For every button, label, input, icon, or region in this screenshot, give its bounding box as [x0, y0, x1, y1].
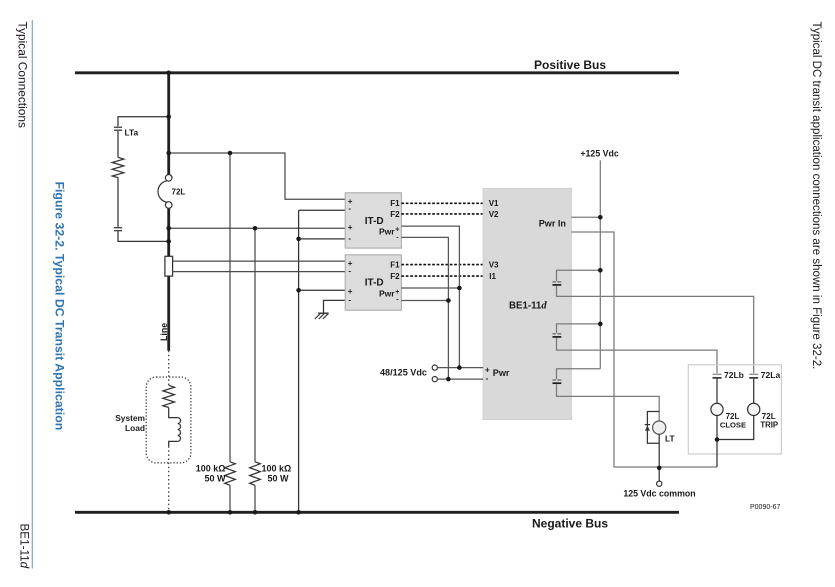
svg-text:LTa: LTa [125, 128, 139, 138]
svg-text:72L: 72L [172, 187, 186, 196]
relay coil LT with diode [645, 412, 675, 444]
svg-text:125 Vdc common: 125 Vdc common [623, 489, 695, 499]
svg-text:TRIP: TRIP [760, 421, 778, 430]
wire bus tap to IT-D1 F+ [169, 153, 346, 199]
svg-text:+: + [348, 223, 353, 232]
svg-text:CLOSE: CLOSE [720, 420, 746, 429]
transducer U2 IT-D [345, 255, 401, 310]
coil 72L TRIP [748, 403, 778, 429]
junction supply+ at terminal [457, 365, 462, 370]
svg-text:72L: 72L [762, 412, 776, 421]
svg-text:50 W: 50 W [204, 473, 226, 483]
wire main feeder vertical [167, 73, 170, 351]
junction supply- branch [446, 298, 451, 303]
svg-text:Negative Bus: Negative Bus [532, 516, 608, 530]
inductor system load L [169, 408, 181, 447]
svg-text:100 kΩ: 100 kΩ [196, 464, 226, 474]
svg-text:Figure 32-2. Typical DC Transi: Figure 32-2. Typical DC Transit Applicat… [52, 182, 66, 431]
junction supply- at terminal [446, 377, 451, 382]
svg-text:100 kΩ: 100 kΩ [262, 464, 292, 474]
wire shunt sense - [173, 271, 346, 273]
contact OUT3 [553, 369, 660, 421]
junction IT-D1 Pwr- node [296, 237, 301, 242]
junction feeder at positive bus [166, 71, 171, 76]
svg-text:-: - [348, 296, 351, 305]
node Positive Bus [75, 58, 679, 73]
wire IT-D1 Pwr- [299, 238, 346, 240]
svg-text:48/125 Vdc: 48/125 Vdc [380, 368, 427, 378]
wire +125 Vdc vertical [599, 160, 601, 368]
svg-text:P0090-67: P0090-67 [750, 504, 780, 511]
wire IT-D2 Pwr+ to supply [401, 287, 459, 289]
junction R2 tap [253, 226, 258, 231]
svg-text:50 W: 50 W [268, 473, 290, 483]
junction sense tap [166, 151, 171, 156]
contact 72La [749, 370, 780, 380]
svg-text:LT: LT [665, 433, 675, 443]
svg-text:-: - [348, 234, 351, 243]
junction +125 at OUT2 [598, 322, 603, 327]
wire resistor R1 branch [229, 153, 231, 462]
svg-text:I1: I1 [489, 272, 496, 281]
svg-text:F1: F1 [390, 199, 400, 208]
svg-text:Pwr: Pwr [493, 368, 510, 378]
svg-text:V2: V2 [489, 210, 499, 219]
svg-text:Pwr: Pwr [379, 227, 395, 237]
contact OUT2 [553, 324, 718, 373]
wire load to negative bus dotted [168, 446, 170, 511]
svg-text:-: - [486, 374, 489, 383]
shunt resistor [165, 256, 173, 276]
junction +125 at OUT1 [598, 268, 603, 273]
svg-text:System: System [115, 413, 145, 423]
junction power tap [166, 226, 171, 231]
wire fiber F2-V2 [401, 213, 483, 215]
junction +125 at Pwr In [598, 215, 603, 220]
svg-text:-: - [348, 267, 351, 276]
svg-text:V3: V3 [489, 261, 499, 270]
svg-text:72Lb: 72Lb [724, 370, 744, 380]
svg-text:+125 Vdc: +125 Vdc [580, 149, 618, 159]
ground [315, 313, 329, 319]
wire Pwr In + [571, 216, 600, 218]
contact OUT1 [553, 270, 754, 373]
wire IT-D2 Pwr- to ground [324, 300, 346, 313]
junction LT at common rail [657, 466, 662, 471]
wire coil bottoms link [717, 416, 754, 440]
svg-text:F1: F1 [390, 261, 400, 270]
breaker control panel [688, 365, 781, 454]
wire line dotted to load [168, 351, 170, 386]
wire close coil to common [716, 416, 718, 468]
wire IT-D1 Pwr- to supply [401, 237, 448, 379]
wire fiber F2-I1 [401, 275, 483, 277]
wire LT to common [658, 434, 660, 481]
wire IT-D2 Pwr- to supply [401, 300, 448, 302]
breaker 72L [158, 175, 185, 209]
svg-text:IT-D: IT-D [365, 278, 384, 289]
svg-text:Typical Connections: Typical Connections [16, 22, 30, 128]
page margin rule (decorative) [31, 20, 33, 569]
junction LTa top tap [166, 114, 171, 119]
junction reference at negative bus [296, 510, 301, 515]
wire Pwr In - return [571, 232, 717, 467]
node 125 Vdc common terminal [657, 481, 662, 486]
wire 72La drop [753, 379, 755, 404]
wire IT-D1 Pwr+ to supply [401, 226, 459, 368]
resistor R2 100 kOhm [250, 462, 261, 486]
wire bus tap to IT-D1 Pwr+ [169, 227, 346, 229]
inductor LTa branch [112, 117, 169, 242]
system load enclosure [146, 377, 191, 463]
junction R1 at negative bus [228, 510, 233, 515]
junction IT-D2 Pwr+ node [296, 288, 301, 293]
junction R2 at negative bus [253, 510, 258, 515]
node Negative Bus [75, 512, 679, 530]
wire supply+ to relay [437, 367, 483, 369]
svg-text:BE1-11d: BE1-11d [18, 524, 31, 569]
junction close coil common [715, 437, 720, 442]
junction LTa bottom tap [166, 239, 171, 244]
svg-text:Typical DC transit application: Typical DC transit application connectio… [810, 22, 822, 370]
wire shunt sense + [173, 260, 346, 262]
wire negative reference vertical [298, 210, 300, 512]
node 48/125 Vdc supply [380, 365, 437, 382]
svg-text:BE1-11d: BE1-11d [509, 300, 547, 311]
svg-text:Line: Line [159, 323, 169, 341]
svg-text:Load: Load [125, 423, 145, 433]
wire fiber F1-V3 [401, 264, 483, 266]
wire supply- to relay [437, 378, 483, 380]
svg-text:Pwr In: Pwr In [539, 219, 566, 229]
junction feeder at negative bus [166, 510, 171, 515]
svg-text:Positive Bus: Positive Bus [534, 58, 606, 72]
svg-text:+: + [395, 227, 399, 234]
relay BE1-11d [483, 188, 571, 419]
junction R1 tap [228, 151, 233, 156]
svg-text:+: + [395, 289, 399, 296]
wire IT-D1 F- [299, 209, 346, 211]
wire resistor R2 branch [254, 228, 256, 461]
resistor R1 100 kOhm [225, 462, 236, 486]
coil 72L CLOSE [711, 403, 746, 429]
svg-text:Pwr: Pwr [379, 289, 395, 299]
svg-text:IT-D: IT-D [365, 216, 384, 227]
svg-text:F2: F2 [390, 272, 400, 281]
resistor system load R [163, 385, 175, 407]
wire fiber F1-V1 [401, 202, 483, 204]
svg-text:72La: 72La [761, 370, 781, 380]
junction supply+ branch [457, 286, 462, 291]
contact 72Lb [713, 370, 744, 380]
transducer U1 IT-D [345, 193, 401, 248]
svg-text:V1: V1 [489, 199, 499, 208]
svg-text:-: - [348, 204, 351, 213]
wire IT-D2 Pwr+ [299, 289, 346, 291]
svg-text:F2: F2 [390, 210, 400, 219]
wire 72Lb to close coil [716, 379, 718, 404]
